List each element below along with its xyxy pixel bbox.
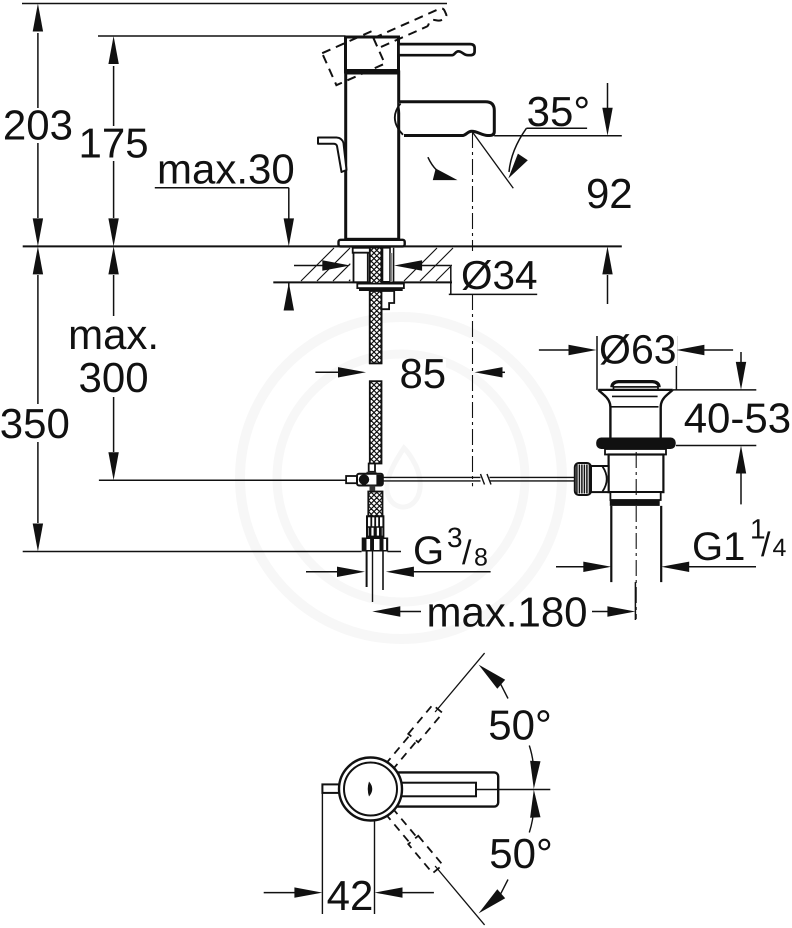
dim 40-53 <box>740 352 742 362</box>
350 bottom extension line <box>23 551 362 553</box>
body bottom ring <box>610 492 660 500</box>
rod ferrule <box>346 476 357 483</box>
top view lever <box>380 772 498 806</box>
aerator centerline <box>472 132 474 486</box>
deck hatch left <box>301 248 350 281</box>
dim diam34 <box>294 265 324 267</box>
drain plug cap <box>612 382 659 388</box>
svg-text:42: 42 <box>327 872 374 919</box>
svg-text:40-53: 40-53 <box>684 395 791 442</box>
svg-text:4: 4 <box>773 534 787 562</box>
deck bottom line <box>273 281 457 283</box>
svg-text:3: 3 <box>447 522 463 553</box>
faucet body <box>346 72 399 239</box>
40-53 extension lines <box>673 389 757 391</box>
svg-text:Ø34: Ø34 <box>461 252 538 298</box>
svg-text:175: 175 <box>79 120 149 167</box>
svg-text:50°: 50° <box>488 702 552 749</box>
tube below nut <box>366 552 368 588</box>
mounting nut <box>357 284 404 289</box>
knurled knob <box>591 466 609 492</box>
50deg lower arc arrows <box>479 889 506 913</box>
svg-text:max.180: max.180 <box>426 589 587 636</box>
svg-text:G1: G1 <box>692 525 745 569</box>
dim G1 1/4 <box>556 566 585 568</box>
pull rod right (double line with break) <box>383 476 481 478</box>
drain pipe <box>610 506 612 582</box>
svg-text:Ø63: Ø63 <box>599 327 677 373</box>
svg-text:85: 85 <box>399 350 446 397</box>
svg-text:92: 92 <box>586 170 633 217</box>
dim 42 <box>321 793 323 914</box>
dashed raised lever + block <box>322 1 454 85</box>
braided hose below nut <box>370 291 382 363</box>
rod clamp block <box>357 474 383 486</box>
watermark ring outer <box>240 317 562 639</box>
svg-text:/: / <box>761 526 771 564</box>
rod guide tabs <box>382 291 395 309</box>
svg-text:50°: 50° <box>489 830 553 877</box>
dim 203 <box>37 33 39 218</box>
top view centerline <box>477 789 551 791</box>
pull rod left line <box>99 479 346 481</box>
175 extension line <box>98 35 346 37</box>
shank left tube <box>353 248 371 253</box>
top view dashed lever upper <box>384 649 490 771</box>
top view spout stub <box>322 784 343 793</box>
deck top line <box>23 245 622 247</box>
spout root arc <box>395 104 403 135</box>
lever handle <box>399 44 475 55</box>
svg-text:300: 300 <box>79 354 149 401</box>
svg-text:203: 203 <box>3 102 73 149</box>
center mark <box>368 782 373 797</box>
dim 350 <box>33 246 43 274</box>
valve body <box>609 455 664 493</box>
dim 85 <box>315 371 340 373</box>
hose end neck <box>369 464 375 472</box>
svg-text:/: / <box>462 534 472 572</box>
washer below gasket <box>605 449 666 455</box>
dim max.300 <box>108 246 118 274</box>
dim diam63 <box>596 336 598 390</box>
G3/8 ribbed sleeve <box>367 516 383 536</box>
braided hose upper (deck to break) <box>370 248 382 364</box>
pop-up rod hook <box>318 138 347 173</box>
cartridge block <box>346 37 399 72</box>
drain flange <box>598 390 673 438</box>
svg-text:8: 8 <box>474 544 488 572</box>
block dark band <box>345 69 400 75</box>
rod break marks <box>481 474 485 485</box>
drain flange top line <box>598 389 673 391</box>
svg-text:350: 350 <box>0 400 70 447</box>
92 extension line (spout) <box>494 135 622 137</box>
top view body circles <box>339 758 402 821</box>
pop-up rod vertical (gray) <box>390 253 392 282</box>
watermark droplet <box>387 448 420 507</box>
dim 175 <box>113 66 115 218</box>
braided hose lower section <box>370 381 382 463</box>
dim max.180 <box>372 606 400 616</box>
50deg upper arc arrows <box>479 665 506 689</box>
shank right tube <box>383 248 391 282</box>
dim G3/8 <box>306 571 340 573</box>
flange inner lines <box>612 395 658 397</box>
svg-text:max.: max. <box>68 311 159 358</box>
clamp lower neck <box>370 486 376 491</box>
drain centerline <box>635 452 637 619</box>
watermark ring inner <box>277 354 525 602</box>
35deg diagonal <box>472 132 513 189</box>
base flange <box>339 240 405 247</box>
top view dashed lever lower <box>384 807 490 928</box>
max.180 right extension <box>634 582 636 620</box>
rubber gasket <box>596 438 676 450</box>
svg-text:max.30: max.30 <box>157 145 295 192</box>
svg-text:G: G <box>413 529 444 573</box>
deck hatch right <box>404 248 457 281</box>
spout <box>399 102 495 136</box>
hose to G3/8 <box>368 492 382 517</box>
top extension line <box>22 3 447 5</box>
dim 92 <box>607 83 609 108</box>
G3/8 nut <box>362 538 389 552</box>
